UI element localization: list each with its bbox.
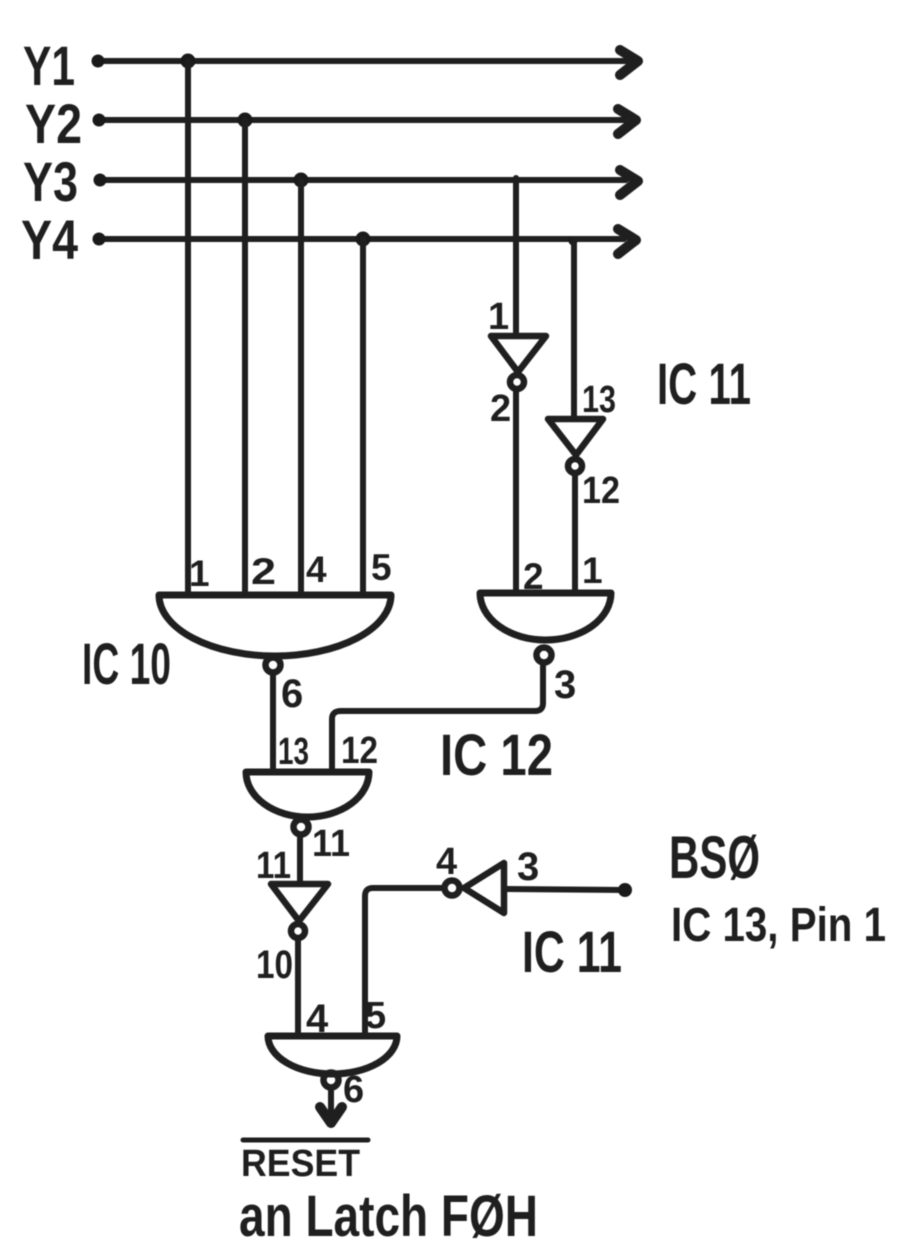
inverter U1 bubble — [510, 375, 524, 389]
wire U4 output to final gate pin5 — [365, 888, 442, 1036]
svg-text:3: 3 — [554, 663, 576, 707]
wire G4 output down arrow — [328, 1091, 334, 1118]
wire Y3 arrowhead — [620, 170, 638, 195]
wire V1 Y1 to IC10 pin1 — [185, 61, 191, 595]
wire V4 Y4 to IC10 pin5 — [360, 239, 366, 595]
svg-text:Y3: Y3 — [23, 150, 78, 213]
node Y2 start dot — [93, 114, 106, 127]
svg-text:12: 12 — [341, 730, 378, 772]
svg-text:2: 2 — [490, 388, 511, 430]
inverter U3 bubble — [291, 924, 305, 938]
svg-text:5: 5 — [365, 995, 386, 1037]
wire V3 Y3 to IC10 pin4 — [298, 180, 304, 595]
overline of RESET — [243, 1138, 368, 1143]
junction Y4/V4 — [356, 232, 371, 247]
NAND gate IC12 body (pins 13,12 out 11) — [246, 772, 369, 817]
wire Y3 horizontal — [99, 177, 626, 183]
wire Y1 arrowhead — [620, 50, 638, 75]
svg-text:IC 13, Pin 1: IC 13, Pin 1 — [671, 899, 886, 952]
svg-text:1: 1 — [189, 553, 210, 594]
wire V6 Y4 to inverter U2 input — [571, 239, 577, 419]
NAND gate G2 body (pins 2,1 out 3) — [480, 593, 611, 640]
NAND gate G4 final body (pins 4,5 out 6) — [268, 1036, 397, 1074]
svg-text:4: 4 — [306, 549, 327, 590]
svg-text:IC 12: IC 12 — [440, 723, 553, 788]
svg-text:IC 10: IC 10 — [82, 632, 171, 697]
svg-text:IC 11: IC 11 — [657, 352, 751, 417]
NAND gate IC10 body — [159, 595, 391, 656]
wire Y4 horizontal — [98, 236, 624, 242]
svg-text:an Latch FØH: an Latch FØH — [239, 1184, 538, 1243]
svg-text:11: 11 — [312, 823, 350, 865]
wire IC12 pin11 to inverter U3 input — [297, 838, 303, 884]
svg-text:6: 6 — [281, 672, 303, 716]
inverter U4 bubble — [445, 881, 460, 896]
svg-text:BSØ: BSØ — [669, 824, 760, 891]
junction Y2/V2 — [238, 113, 253, 128]
svg-text:IC 11: IC 11 — [522, 920, 622, 985]
wire IC10 pin6 to IC12 pin13 — [270, 676, 276, 772]
svg-text:13: 13 — [582, 379, 616, 421]
svg-text:1: 1 — [488, 296, 509, 338]
svg-text:12: 12 — [582, 470, 620, 512]
svg-text:10: 10 — [256, 943, 293, 987]
wire Y2 horizontal — [98, 117, 624, 123]
wire V5 Y3 to inverter U1 input — [513, 178, 519, 336]
svg-text:2: 2 — [251, 551, 276, 592]
node Y4 start dot — [93, 233, 106, 246]
svg-text:3: 3 — [517, 845, 539, 889]
svg-text:6: 6 — [343, 1069, 364, 1111]
junction Y4/V6 — [569, 237, 578, 246]
svg-text:4: 4 — [306, 997, 329, 1041]
svg-text:Y4: Y4 — [21, 208, 78, 271]
wire U2 output to NAND G2 pin1 — [572, 475, 578, 593]
NAND G4 output bubble — [324, 1073, 339, 1088]
wire Y1 horizontal — [97, 58, 626, 64]
svg-text:Y2: Y2 — [25, 92, 82, 155]
NAND G2 output bubble — [537, 648, 552, 663]
node BS0 terminal dot — [618, 883, 632, 897]
inverter U2 (IC11 pin13-12) triangle — [548, 419, 603, 455]
junction Y3/V3 — [294, 173, 309, 188]
inverter U1 (IC11 pin1-2) triangle — [491, 336, 546, 372]
arrowhead down to RESET — [320, 1107, 342, 1123]
wire G2 pin3 to IC12 pin12 — [332, 666, 543, 772]
svg-text:5: 5 — [371, 547, 392, 588]
wire V2 Y2 to IC10 pin2 — [242, 120, 248, 595]
inverter U4 (IC11 pin4-3, BS0 input) triangle — [464, 863, 504, 913]
wire BS0 input to U4 — [504, 889, 625, 890]
svg-text:2: 2 — [523, 556, 544, 597]
wire Y2 arrowhead — [618, 109, 636, 134]
wire Y4 arrowhead — [618, 229, 636, 254]
junction Y1/V1 — [181, 54, 196, 69]
node Y3 start dot — [94, 174, 107, 187]
wire U3 output to final gate pin4 — [295, 940, 301, 1036]
svg-text:11: 11 — [256, 845, 291, 887]
wire U1 output to NAND G2 pin2 — [513, 391, 519, 593]
inverter U3 (IC11 pin11-10) triangle — [271, 884, 328, 921]
inverter U2 bubble — [568, 459, 582, 473]
node Y1 start dot — [92, 55, 105, 68]
NAND IC12 output bubble — [294, 820, 309, 835]
svg-text:1: 1 — [582, 550, 603, 591]
svg-text:RESET: RESET — [241, 1143, 360, 1185]
svg-text:4: 4 — [436, 841, 457, 883]
NAND IC10 output bubble — [266, 658, 281, 673]
svg-text:13: 13 — [278, 731, 309, 773]
svg-text:Y1: Y1 — [23, 34, 75, 97]
